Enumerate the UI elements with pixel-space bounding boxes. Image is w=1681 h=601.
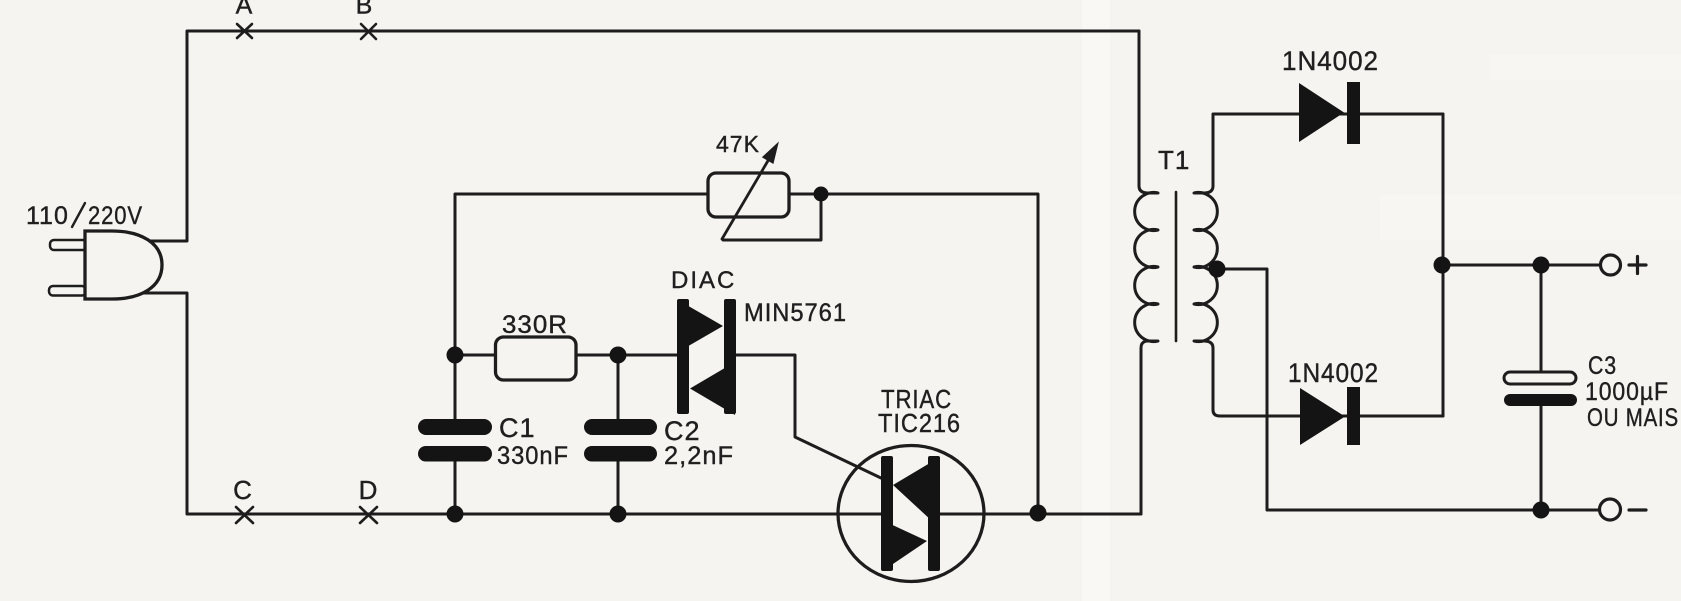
svg-text:C1: C1 (499, 413, 536, 443)
svg-text:TIC216: TIC216 (878, 408, 961, 438)
svg-text:D: D (359, 475, 379, 505)
svg-text:T1: T1 (1158, 145, 1190, 175)
svg-text:C3: C3 (1588, 352, 1617, 380)
svg-text:A: A (236, 0, 254, 20)
svg-text:1N4002: 1N4002 (1288, 358, 1379, 388)
svg-text:330R: 330R (502, 311, 568, 339)
svg-text:1000µF: 1000µF (1585, 378, 1669, 406)
svg-text:OU MAIS: OU MAIS (1587, 404, 1679, 432)
svg-text:2,2nF: 2,2nF (664, 442, 734, 470)
svg-text:47K: 47K (716, 131, 760, 157)
svg-text:330nF: 330nF (497, 442, 569, 470)
svg-text:C: C (233, 475, 253, 505)
svg-text:220V: 220V (88, 202, 143, 230)
svg-text:1N4002: 1N4002 (1282, 46, 1379, 76)
svg-text:110: 110 (26, 202, 69, 230)
svg-text:MIN5761: MIN5761 (744, 299, 847, 327)
svg-text:DIAC: DIAC (671, 267, 736, 294)
svg-text:B: B (356, 0, 374, 20)
